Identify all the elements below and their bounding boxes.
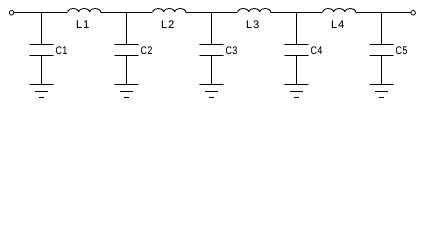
wire node 4 junction down to C4 (296, 13, 298, 45)
wire C1 down to ground (41, 56, 43, 85)
ground symbol below C2 (115, 85, 139, 98)
ground symbol below C3 (200, 85, 224, 98)
ground symbol below C1 (30, 85, 54, 98)
capacitor C5 (370, 45, 394, 56)
label L4 (value label for inductor L4) (332, 20, 344, 28)
capacitor C4 (285, 45, 309, 56)
inductor L1 (68, 9, 101, 12)
terminal (left input port) (9, 11, 13, 15)
wire L2 to L3 (through node 3) (186, 12, 238, 14)
wire L4 to right port (through node 5) (356, 12, 411, 14)
wire node 1 junction down to C1 (41, 13, 43, 45)
inductor L4 (323, 9, 356, 12)
label C3 (value label for capacitor C3) (226, 46, 237, 54)
ground symbol below C4 (285, 85, 309, 98)
inductor L2 (153, 9, 186, 12)
inductor L3 (238, 9, 271, 12)
terminal (right output port) (411, 11, 415, 15)
label C1 (value label for capacitor C1) (56, 46, 67, 54)
wire node 5 junction down to C5 (381, 13, 383, 45)
capacitor C3 (200, 45, 224, 56)
wire C5 down to ground (381, 56, 383, 85)
wire C2 down to ground (126, 56, 128, 85)
wire node 3 junction down to C3 (211, 13, 213, 45)
capacitor C2 (115, 45, 139, 56)
label L2 (value label for inductor L2) (162, 20, 174, 28)
wire L3 to L4 (through node 4) (271, 12, 323, 14)
wire left port to L1 (through node 1) (14, 12, 68, 14)
label C2 (value label for capacitor C2) (141, 46, 152, 54)
label C4 (value label for capacitor C4) (311, 46, 322, 54)
wire C3 down to ground (211, 56, 213, 85)
wire L1 to L2 (through node 2) (101, 12, 153, 14)
label L1 (value label for inductor L1) (77, 20, 89, 28)
wire C4 down to ground (296, 56, 298, 85)
label C5 (value label for capacitor C5) (396, 46, 407, 54)
label L3 (value label for inductor L3) (247, 20, 259, 28)
capacitor C1 (30, 45, 54, 56)
ground symbol below C5 (370, 85, 394, 98)
wire node 2 junction down to C2 (126, 13, 128, 45)
